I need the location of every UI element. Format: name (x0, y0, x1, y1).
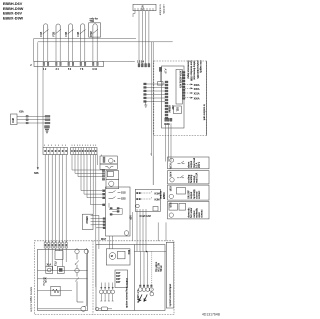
svg-text:R4T: R4T (116, 281, 121, 284)
svg-text:preferential kWh: preferential kWh (196, 61, 199, 80)
small box K7M (55, 251, 63, 260)
svg-text:S2S: S2S (121, 198, 126, 201)
svg-text:contact: contact (198, 191, 201, 199)
X2M plug contacts (43, 62, 98, 65)
svg-text:X30A: X30A (194, 84, 200, 87)
fuse F1U box (54, 261, 64, 273)
X2M terminal labels (43, 68, 98, 71)
svg-text:F1B: F1B (40, 32, 43, 37)
svg-text:X1M: X1M (12, 118, 15, 123)
left box right edge wire (83, 254, 86, 307)
svg-text:230 V: 230 V (198, 162, 201, 168)
wires relays to heater box (133, 209, 147, 252)
component F1U box (158, 82, 164, 85)
svg-text:X10A: X10A (164, 123, 170, 126)
relay box K1M with coil (100, 156, 117, 164)
pump box M1P (101, 187, 132, 241)
svg-text:50 Hz: 50 Hz (160, 265, 163, 272)
breaker F4B (77, 24, 86, 39)
svg-text:F2B: F2B (53, 32, 56, 37)
contactor K1M K2M box (135, 189, 160, 218)
svg-text:K5M: K5M (90, 31, 93, 36)
relay K3R box (168, 157, 210, 169)
terminal strip X2M (30, 62, 103, 68)
field wires into A1P (145, 84, 165, 102)
label strip system control (166, 242, 174, 308)
box SS2 (106, 171, 119, 180)
terminal strip X4M (71, 145, 98, 155)
breaker F3B (65, 24, 74, 39)
inline pins supply (26, 115, 28, 124)
plug CN box (46, 264, 53, 274)
relay K6R box (168, 201, 210, 219)
svg-text:M1P: M1P (101, 238, 106, 241)
svg-text:*9W: *9W (90, 20, 95, 23)
compressor wires (134, 251, 166, 296)
heater element box (51, 286, 60, 296)
svg-text:safety thermostat: safety thermostat (193, 61, 196, 80)
X6A right pins (183, 72, 185, 100)
rotated note texts bottom (29, 261, 172, 312)
main switch box (dashed) (154, 61, 207, 136)
wire bundle X1A down (139, 11, 149, 64)
svg-text:EBBH-D9W: EBBH-D9W (3, 7, 24, 11)
svg-text:system control input: system control input (169, 284, 172, 307)
right rotated label columns (186, 61, 202, 81)
svg-text:X801M: X801M (85, 216, 88, 223)
svg-text:A3P: A3P (129, 215, 132, 220)
fan box M1F (106, 249, 130, 265)
connector strip X6A (176, 70, 182, 105)
earth terminal compressor (150, 292, 154, 296)
label to outdoor unit (159, 5, 166, 16)
svg-text:F1U: F1U (54, 261, 57, 266)
compressor terminals (138, 285, 153, 292)
svg-text:M1F: M1F (127, 250, 130, 255)
model list text (3, 2, 24, 20)
svg-text:S6S: S6S (34, 172, 39, 175)
terminal strip X3M (43, 145, 68, 155)
component A8P box (82, 214, 93, 229)
plug pins X5M (144, 83, 147, 102)
svg-text:S1S: S1S (121, 192, 126, 195)
svg-text:X3A: X3A (19, 111, 24, 114)
pin X21A (159, 67, 161, 81)
thermal chain Q2L (84, 249, 88, 253)
connectors X2A pins (137, 61, 150, 67)
left inner box (38, 249, 88, 310)
svg-text:SS1: SS1 (176, 107, 179, 112)
svg-text:rate supply: rate supply (199, 61, 202, 74)
svg-text:X6YA X6YB X6Y: X6YA X6YB X6Y (179, 71, 182, 89)
svg-text:K1M K2M: K1M K2M (140, 215, 151, 218)
svg-text:K5R: K5R (168, 186, 171, 191)
breaker F2B (53, 24, 62, 39)
svg-text:F4B: F4B (77, 32, 80, 37)
bus vertical right pair (152, 42, 154, 185)
wires X4M routing (72, 155, 103, 288)
dashed field leaders (185, 84, 200, 101)
dashed option divider (92, 241, 94, 315)
inner divider (133, 245, 135, 311)
svg-text:contact: contact (201, 209, 204, 217)
wires PCB to relay boxes (166, 123, 171, 161)
svg-text:9 10: 9 10 (92, 68, 97, 71)
A1P left pin header (165, 81, 168, 119)
svg-text:EBBX: EBBX (163, 192, 166, 199)
switch box right edge (206, 61, 208, 136)
wires X3M down to heater box (45, 155, 66, 243)
svg-text:X1A: X1A (47, 264, 52, 267)
bus line B (38, 41, 173, 43)
heater plug labels (45, 240, 67, 242)
wire bus into K boxes (150, 154, 153, 185)
svg-text:only for EBBX models: only for EBBX models (29, 286, 33, 312)
svg-text:K4R: K4R (168, 172, 171, 177)
connector pins column K (102, 170, 104, 180)
svg-text:to outdoor unit: to outdoor unit (203, 104, 206, 121)
thermal protector Q1L (100, 164, 117, 169)
wires breakers to X2M (44, 39, 98, 62)
svg-text:unit X1A: unit X1A (162, 5, 165, 14)
component SS1 labels block (168, 105, 182, 114)
end arrow S6S (37, 167, 39, 170)
svg-text:EBBH-D6V: EBBH-D6V (3, 2, 23, 6)
aux box X7A (153, 207, 158, 212)
relay box K2M with coil (106, 179, 119, 188)
svg-text:1 2 3 4: 1 2 3 4 (137, 61, 145, 64)
lower pin column (103, 190, 106, 229)
left box horizontal wires (38, 279, 88, 309)
thermistor box (115, 270, 128, 288)
main wire heater box (38, 270, 88, 272)
svg-text:4D131764B: 4D131764B (202, 313, 221, 317)
electrode terminals row A (99, 283, 114, 302)
svg-text:EBBX-D9W: EBBX-D9W (3, 17, 24, 21)
svg-text:X35A: X35A (194, 88, 200, 91)
wires A8P to bottom (93, 215, 103, 249)
svg-text:A1P: A1P (164, 69, 168, 74)
wire stub shield (133, 11, 135, 17)
svg-text:X1A: X1A (142, 5, 145, 10)
breaker F1B (40, 24, 49, 39)
svg-text:thermostat input: thermostat input (186, 61, 189, 79)
svg-text:to outdoor: to outdoor (159, 5, 162, 16)
right inner box (96, 245, 165, 311)
svg-text:X31A: X31A (194, 93, 200, 96)
supply wires (17, 116, 46, 123)
svg-text:EBBX-D6V: EBBX-D6V (3, 12, 23, 16)
svg-text:to X1M 1 2 3: to X1M 1 2 3 (137, 289, 140, 303)
bus vertical left pair (38, 42, 43, 169)
connector X1A (to outdoor unit) (133, 4, 156, 10)
svg-text:user interface X5M: user interface X5M (190, 61, 193, 81)
plug contacts at bus (45, 115, 51, 133)
svg-text:option external heat source: option external heat source (126, 277, 129, 308)
heater wires down (45, 248, 86, 271)
circle M coil left bottom (81, 306, 86, 311)
svg-text:X50A: X50A (194, 97, 200, 100)
svg-text:K3R: K3R (168, 164, 171, 169)
svg-text:F3B: F3B (65, 32, 68, 37)
supply terminal X1M (11, 111, 24, 125)
ground symbol (144, 102, 147, 108)
bus line A (34, 39, 136, 62)
PCB A1P box (162, 66, 185, 128)
label left of K5R (160, 191, 166, 199)
wire X2M to X2A link (103, 61, 135, 63)
thermal switch chain Q1L (75, 249, 84, 302)
fuse F3U line (95, 307, 112, 311)
A1P bottom pins X10A (165, 118, 172, 121)
relay K5R box (168, 185, 210, 200)
svg-text:X800M: X800M (168, 105, 171, 112)
heater input plugs (44, 243, 67, 249)
relay K4R box (168, 171, 210, 184)
note text small (43, 278, 47, 287)
arrows below compressor (139, 295, 147, 302)
svg-text:max 0.3A: max 0.3A (195, 173, 198, 183)
backup heater dashed box (34, 241, 174, 315)
svg-text:M: M (111, 255, 113, 258)
contactor K5M boxed (89, 18, 101, 39)
